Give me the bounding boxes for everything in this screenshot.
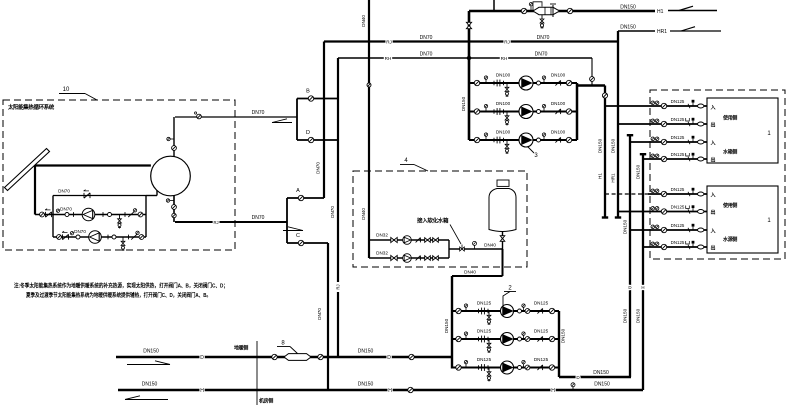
valve tank bottom 2	[172, 213, 176, 217]
check valve on bypass	[84, 193, 90, 198]
valve group2-1 discharge	[549, 308, 554, 313]
wire branch D	[297, 139, 338, 141]
svg-text:出: 出	[711, 245, 716, 252]
valve on RH drop	[590, 77, 595, 82]
svg-text:DN150: DN150	[358, 382, 374, 388]
wire V1 H1 DN150	[604, 86, 606, 218]
svg-text:DN70: DN70	[252, 215, 265, 221]
valve D	[308, 137, 313, 142]
svg-text:DN150: DN150	[358, 349, 374, 355]
valve B	[308, 96, 313, 101]
heat meter body	[533, 7, 560, 14]
heat exchange tank	[151, 156, 191, 196]
expansion tank cap	[497, 180, 509, 186]
vent pair row 3	[651, 137, 655, 141]
wire D main bottom DN150	[116, 356, 452, 358]
wire B-D connector	[296, 99, 298, 141]
valve A	[298, 195, 303, 200]
valve bowtie tank drop	[500, 236, 505, 239]
gauge on base line	[473, 241, 477, 245]
wire group3 suction header	[468, 11, 471, 140]
pump small P4-1	[403, 236, 412, 245]
tick row1 a	[73, 212, 75, 217]
valve unit row 2	[661, 121, 666, 126]
drain group3-1	[506, 83, 508, 88]
svg-text:DN100: DN100	[551, 130, 566, 135]
svg-text:DN150: DN150	[636, 308, 641, 323]
valve unit row 6	[661, 209, 666, 214]
gauge group2-1 a	[464, 304, 467, 307]
wire branch A	[287, 197, 324, 199]
svg-text:H: H	[641, 285, 644, 290]
wire unit row 2	[618, 123, 707, 125]
svg-text:DN125: DN125	[534, 329, 549, 334]
svg-text:DN150: DN150	[620, 25, 636, 31]
vent pair row 6	[651, 207, 655, 211]
gauge row2	[70, 232, 73, 235]
wire tank top pipe	[173, 117, 175, 157]
gauge tank bottom	[166, 199, 169, 202]
svg-text:DN40: DN40	[361, 15, 366, 27]
gauge group3-3 a	[484, 133, 487, 136]
flex joint group2-3	[481, 364, 483, 371]
valve tank top	[172, 146, 177, 151]
leader to valve	[450, 225, 461, 245]
svg-text:DN125: DN125	[671, 187, 685, 192]
sensor row 4	[692, 156, 694, 159]
svg-text:出: 出	[711, 122, 716, 129]
wire HR1 return DN150 top	[618, 30, 655, 32]
flow device 8	[284, 354, 311, 361]
wire tank drop	[502, 232, 504, 250]
svg-text:入: 入	[711, 105, 716, 111]
union group2-3	[518, 366, 522, 370]
gauge group2-3 b	[522, 360, 525, 363]
svg-text:DN100: DN100	[551, 73, 566, 78]
valve unit row 3	[661, 139, 666, 144]
drain group2-3	[488, 368, 490, 373]
bracket row 6	[686, 206, 690, 209]
wire DN32 row B	[369, 257, 449, 259]
cap V3	[627, 134, 633, 136]
vent pair row 1	[651, 101, 655, 105]
svg-text:使用侧: 使用侧	[722, 115, 737, 122]
wire V4 H DN150	[642, 154, 644, 390]
flange oval row 4	[698, 157, 704, 161]
valve group2-2 discharge	[549, 336, 554, 341]
gauge group3-2 b	[542, 104, 545, 107]
svg-text:D: D	[200, 355, 204, 361]
svg-text:DN125: DN125	[534, 357, 549, 362]
wire solar manifold left	[52, 196, 54, 238]
check group3-1	[555, 80, 560, 85]
wire DN32 row A	[369, 239, 449, 241]
cap V2	[615, 216, 621, 218]
wire group2 branch 1	[452, 310, 559, 312]
gauge tank top	[167, 137, 170, 140]
svg-text:DN125: DN125	[671, 135, 685, 140]
union row2	[76, 235, 80, 239]
bracket row 4	[686, 153, 690, 156]
valve bowtie row B	[391, 255, 394, 260]
flange oval row 2	[698, 122, 704, 126]
union row1 b	[108, 213, 112, 217]
valve bowtie row A	[391, 237, 394, 242]
solar collector panel	[5, 149, 50, 191]
valve D line c	[409, 354, 414, 359]
wire group2 suction header	[451, 276, 453, 369]
flex joint group3-1	[496, 80, 498, 87]
tick row2 b	[107, 235, 109, 240]
vent pair row 4	[651, 154, 655, 158]
svg-text:A: A	[296, 188, 300, 194]
svg-text:10: 10	[63, 87, 70, 93]
pump small P4-2	[403, 254, 412, 263]
drain row1	[119, 215, 121, 220]
svg-text:DN100: DN100	[496, 130, 511, 135]
valve group3-2 discharge	[566, 109, 571, 114]
check group3-3	[555, 137, 560, 142]
svg-text:DN150: DN150	[636, 164, 641, 179]
cap V4	[640, 153, 646, 155]
svg-text:DN100: DN100	[496, 73, 511, 78]
valve unit row 8	[661, 244, 666, 249]
wire branch B	[297, 98, 338, 100]
gauge group2-2 a	[464, 332, 467, 335]
valve bowtie on suction header	[466, 22, 471, 25]
sensor row 8	[692, 244, 694, 247]
svg-text:H: H	[200, 388, 204, 394]
wire unit row 7	[630, 229, 707, 231]
valve group3-1 discharge	[566, 80, 571, 85]
wire panel to tank	[35, 164, 151, 166]
check group3-2	[555, 109, 560, 114]
tick row1 b	[102, 212, 104, 217]
pump P2-1	[501, 305, 514, 318]
flange oval row 6	[698, 210, 704, 214]
svg-text:DN125: DN125	[477, 357, 492, 362]
junction dot RH-header	[467, 56, 471, 60]
check row2 b	[131, 234, 137, 239]
valve on V1	[602, 93, 607, 98]
check row A	[416, 238, 421, 243]
check valve row1	[46, 212, 52, 217]
check group2-1	[537, 308, 542, 313]
valve D line b	[318, 354, 323, 359]
gauge row1 b	[133, 209, 136, 212]
wire unit row 6	[618, 211, 707, 213]
wire riser DN70 RJ-A	[323, 42, 325, 199]
svg-text:DN100: DN100	[496, 101, 511, 106]
wire branch C	[287, 242, 328, 244]
svg-text:地暖侧: 地暖侧	[234, 345, 248, 352]
union group2-2	[518, 337, 522, 341]
svg-text:DN70: DN70	[58, 189, 70, 194]
svg-text:DN70: DN70	[317, 308, 322, 320]
unit 1 upper rectangle	[707, 98, 778, 163]
svg-text:DN125: DN125	[671, 117, 685, 122]
check row1 b	[128, 212, 134, 217]
pressure gauge at meter	[529, 2, 532, 5]
pump solar P2	[89, 231, 102, 244]
small valve on base line	[461, 245, 463, 250]
union group3-3	[537, 138, 541, 142]
valve H line	[408, 387, 413, 392]
svg-text:使用侧: 使用侧	[722, 202, 737, 209]
pump P2-3	[501, 361, 514, 374]
svg-text:D: D	[387, 355, 391, 361]
valve on H1 line right	[567, 8, 572, 13]
flange oval row 8	[698, 245, 704, 249]
vent pair row 2	[651, 119, 655, 123]
valve unit row 5	[661, 191, 666, 196]
gauge group2-2 b	[522, 332, 525, 335]
wire RJ main DN70	[324, 40, 618, 42]
flow arrow left H line	[125, 399, 168, 401]
check group2-3	[537, 365, 542, 370]
svg-text:D: D	[628, 285, 631, 290]
vent pair row 5	[651, 189, 655, 193]
drain under meter	[541, 15, 543, 19]
svg-text:注:冬季太阳能集热系统作为地暖供暖系统的补充热源，实现太阳供: 注:冬季太阳能集热系统作为地暖供暖系统的补充热源，实现太阳供热，打开阀门A、B，…	[14, 282, 228, 290]
wire V3 D DN150	[629, 135, 631, 377]
gauge row1	[56, 209, 59, 212]
svg-text:DN70: DN70	[420, 35, 433, 41]
svg-text:DN150: DN150	[611, 138, 616, 153]
valve unit row 4	[661, 156, 666, 161]
union group2-1	[518, 309, 522, 313]
svg-text:入: 入	[711, 141, 716, 147]
svg-text:RJ: RJ	[213, 220, 218, 225]
svg-text:DN100: DN100	[551, 101, 566, 106]
wire RH drop	[591, 58, 593, 86]
svg-text:DN125: DN125	[671, 152, 685, 157]
svg-text:DN150: DN150	[444, 318, 449, 333]
check group2-2	[537, 336, 542, 341]
check row B	[416, 256, 421, 261]
wire solar return stub	[175, 221, 287, 223]
sensor row 1	[692, 103, 694, 106]
sensor row 3	[692, 139, 694, 142]
drain group3-3	[506, 140, 508, 145]
svg-text:RJ: RJ	[504, 40, 510, 45]
valve group2-3 mid	[525, 365, 530, 370]
svg-text:DN150: DN150	[594, 382, 610, 388]
cap V1	[602, 216, 608, 218]
svg-text:C: C	[296, 233, 300, 239]
svg-text:水源侧: 水源侧	[722, 236, 737, 243]
wire D discharge to V3	[559, 376, 631, 378]
wire DN40 elbow	[452, 275, 503, 277]
union group3-1	[537, 81, 541, 85]
svg-text:夏季及过渡季节太阳能集热系统为地暖供暖系统提供辅热，打开阀门: 夏季及过渡季节太阳能集热系统为地暖供暖系统提供辅热，打开阀门C、D，关闭阀门A、…	[25, 291, 211, 299]
wire DN32 connector	[448, 240, 450, 258]
gauge group2-3 a	[464, 360, 467, 363]
svg-text:入: 入	[711, 229, 716, 235]
valve C	[298, 240, 303, 245]
svg-text:DN70: DN70	[252, 110, 265, 116]
flange oval row 7	[698, 228, 704, 232]
wire RH main DN70	[338, 57, 592, 59]
vent pair row 7	[651, 225, 655, 229]
svg-text:HR1: HR1	[657, 29, 667, 35]
svg-text:HR1: HR1	[611, 173, 616, 183]
svg-text:太阳能集热循环系统: 太阳能集热循环系统	[8, 103, 55, 111]
valve bowtie row B c	[433, 256, 436, 261]
wire header link to V1	[577, 84, 605, 87]
drain group2-2	[488, 339, 490, 344]
svg-text:DN125: DN125	[477, 329, 492, 334]
sensor row 2	[692, 121, 694, 124]
pump solar P1	[82, 208, 95, 221]
wire group3 branch 1	[469, 82, 577, 84]
flex joint group3-2	[496, 108, 498, 115]
tick row2 c	[128, 235, 130, 240]
wire group3 branch 3	[469, 139, 577, 141]
svg-text:DN125: DN125	[477, 301, 492, 306]
valve group2-3 discharge	[549, 365, 554, 370]
wire solar bypass DN70	[53, 195, 146, 197]
svg-text:水箱侧: 水箱侧	[722, 149, 737, 156]
svg-text:RJ: RJ	[386, 40, 392, 45]
svg-text:H: H	[388, 388, 392, 394]
flow arrow right D line	[127, 364, 170, 366]
wire unit row 5 dashed	[605, 193, 648, 195]
sensor row 6	[692, 208, 694, 211]
wire group2 discharge header	[558, 311, 560, 377]
wire V2 HR1 DN150	[617, 31, 619, 217]
svg-text:DN40: DN40	[464, 270, 476, 275]
svg-text:DN150: DN150	[623, 219, 628, 234]
wire solar manifold right	[145, 196, 147, 238]
svg-text:DN150: DN150	[623, 308, 628, 323]
pump P3-1	[519, 76, 533, 90]
svg-text:DN32: DN32	[376, 251, 388, 256]
valve group2-1 suction	[456, 308, 461, 313]
gauge group3-2 a	[484, 104, 487, 107]
svg-text:RH: RH	[385, 56, 392, 61]
gauge row2 b	[136, 231, 139, 234]
svg-text:B: B	[306, 89, 310, 95]
dashed boundary units box	[650, 90, 785, 259]
svg-text:DN70: DN70	[535, 52, 548, 58]
sensor row 5	[692, 191, 694, 194]
flex joint group2-2	[481, 336, 483, 343]
valve group2-3 suction	[456, 365, 461, 370]
svg-text:接入软化水箱: 接入软化水箱	[417, 217, 449, 225]
valve group3-3 suction	[474, 137, 479, 142]
svg-text:机房侧: 机房侧	[258, 398, 273, 405]
valve on solar stub	[197, 114, 202, 119]
valve bowtie row B b	[425, 256, 428, 261]
valve on H1 line	[521, 8, 526, 13]
vent pair row 8	[651, 242, 655, 246]
drain row2	[122, 237, 124, 242]
wire H1 supply DN150 top	[469, 10, 655, 13]
flex joint group3-3	[496, 137, 498, 144]
union group3-2	[537, 110, 541, 114]
svg-text:出: 出	[711, 157, 716, 164]
flange oval row 1	[698, 104, 704, 108]
wire unit row 8	[643, 246, 707, 248]
valve unit row 7	[661, 227, 666, 232]
dashed boundary solar system box 10	[3, 100, 235, 250]
svg-text:DN70: DN70	[316, 162, 321, 174]
wire group2 branch 2	[452, 338, 559, 340]
svg-text:DN150: DN150	[598, 138, 603, 153]
flange oval row 5	[698, 192, 704, 196]
gauge group3-1 b	[542, 76, 545, 79]
svg-text:DN40: DN40	[361, 208, 366, 220]
svg-text:DN125: DN125	[534, 301, 549, 306]
svg-text:H1: H1	[657, 9, 664, 15]
svg-text:DN150: DN150	[461, 96, 466, 111]
svg-text:DN70: DN70	[60, 207, 72, 212]
svg-text:DN40: DN40	[484, 243, 496, 248]
union row1	[65, 213, 69, 217]
valve group3-1 suction	[474, 80, 479, 85]
svg-text:DN70: DN70	[74, 229, 86, 234]
svg-text:RH: RH	[501, 56, 508, 61]
wire solar pump row 2	[53, 236, 146, 238]
drain group2-1	[488, 311, 490, 316]
svg-text:DN150: DN150	[593, 370, 609, 376]
check valve row2	[63, 234, 69, 239]
valve group2-1 mid	[525, 309, 530, 314]
wire manifold to tank	[146, 195, 157, 197]
wire H main bottom DN150	[118, 389, 643, 391]
svg-text:H: H	[551, 388, 555, 394]
valve D line a	[272, 354, 277, 359]
wire vertical C-drop DN70	[327, 243, 329, 390]
valve unit row 1	[661, 103, 666, 108]
pump P2-2	[501, 333, 514, 346]
valve bowtie row A c	[433, 238, 436, 243]
svg-text:DN150: DN150	[143, 349, 159, 355]
svg-text:DN125: DN125	[671, 205, 685, 210]
gauge H line	[571, 383, 575, 387]
svg-text:DN70: DN70	[330, 206, 335, 218]
flow arrow HR1	[670, 30, 721, 32]
tick row1 c	[124, 212, 126, 217]
wire riser from top edge	[493, 0, 495, 11]
flow arrow left on stub	[272, 122, 292, 124]
flow arrow right on stub	[283, 230, 303, 232]
valve row2 right	[139, 235, 144, 240]
svg-text:DN32: DN32	[376, 233, 388, 238]
wire group3 discharge header	[576, 83, 579, 140]
valve row1 left	[40, 212, 45, 217]
wire group2 branch 3	[452, 367, 559, 369]
wire panel downcomer	[34, 166, 36, 215]
wire tank bottom pipe	[173, 196, 175, 223]
svg-text:DN150: DN150	[561, 328, 566, 343]
wire unit row 3	[630, 141, 707, 143]
valve tank bottom	[172, 205, 177, 210]
sensor row 7	[692, 227, 694, 230]
valve row2 left	[57, 235, 62, 240]
wire solar pump row 1	[35, 214, 146, 216]
svg-text:DN125: DN125	[671, 99, 685, 104]
valve group3-2 suction	[474, 109, 479, 114]
svg-text:DN125: DN125	[671, 223, 685, 228]
bracket row 8	[686, 241, 690, 244]
wire to tank base	[449, 248, 503, 250]
dashed boundary box 4	[353, 171, 527, 267]
pump P3-2	[519, 105, 533, 119]
wire A-C connector	[286, 198, 288, 243]
wire DN40 down	[502, 249, 504, 276]
